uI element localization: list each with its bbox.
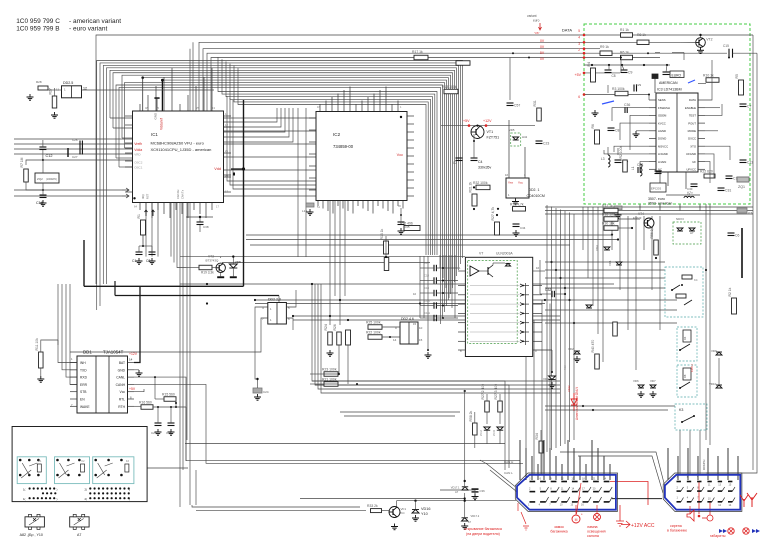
svg-text:"US": "US"	[534, 31, 540, 35]
svg-text:R1: R1	[137, 214, 141, 218]
svg-text:1C0 959 799 B: 1C0 959 799 B	[16, 25, 59, 32]
svg-text:СИГН: СИГН	[690, 364, 694, 372]
svg-text:1(: 1(	[23, 497, 26, 501]
svg-text:A7: A7	[77, 533, 81, 537]
svg-text:замок: замок	[554, 525, 564, 529]
svg-text:R8 1k: R8 1k	[637, 33, 646, 37]
svg-text:ODEM: ODEM	[658, 114, 667, 118]
svg-text:FSWASH: FSWASH	[658, 106, 670, 110]
svg-text:UF: UF	[692, 160, 696, 164]
svg-text:Vrefh: Vrefh	[134, 142, 142, 146]
svg-text:4: 4	[578, 36, 580, 40]
svg-text:R24: R24	[324, 324, 328, 330]
svg-text:L1: L1	[631, 166, 635, 170]
svg-text:VD8: VD8	[235, 260, 241, 264]
svg-text:TJA1054T: TJA1054T	[103, 350, 124, 355]
svg-text:C35: C35	[404, 225, 410, 229]
svg-text:R1 1k: R1 1k	[620, 28, 629, 32]
svg-text:RTH: RTH	[118, 405, 125, 409]
svg-text:2(: 2(	[85, 497, 88, 501]
svg-text:15: 15	[413, 322, 417, 326]
svg-text:16: 16	[505, 173, 509, 177]
svg-text:Vcc: Vcc	[397, 153, 403, 157]
svg-text:C38: C38	[203, 225, 209, 229]
svg-text:3507- euro: 3507- euro	[648, 197, 665, 201]
svg-text:LNAIN: LNAIN	[658, 160, 666, 164]
svg-text:C8: C8	[615, 129, 619, 133]
svg-text:OSC2: OSC2	[134, 160, 143, 164]
svg-text:NDX3: NDX3	[676, 217, 684, 221]
svg-text:VD1: VD1	[608, 260, 612, 266]
svg-text:- euro variant: - euro variant	[69, 25, 107, 32]
svg-text:): )	[57, 488, 58, 492]
svg-text:C12: C12	[46, 154, 53, 158]
svg-text:DD1: DD1	[83, 350, 92, 355]
svg-text:салона: салона	[587, 534, 599, 538]
svg-text:VD16: VD16	[421, 507, 431, 511]
svg-text:R4: R4	[587, 62, 591, 66]
svg-text:euro: euro	[533, 19, 540, 23]
svg-text:10: 10	[413, 292, 417, 296]
svg-text:ENABLE: ENABLE	[685, 106, 696, 110]
svg-text:R13 1k: R13 1k	[380, 228, 384, 239]
svg-text:C57: C57	[514, 104, 520, 108]
svg-text:ERR: ERR	[80, 383, 88, 387]
svg-text:VT: VT	[479, 252, 483, 256]
svg-text:GND: GND	[154, 112, 158, 120]
svg-text:MSVCC: MSVCC	[658, 144, 668, 148]
svg-text:сирена: сирена	[670, 524, 682, 528]
svg-text:C15: C15	[723, 44, 729, 48]
svg-text:Vcc: Vcc	[518, 181, 524, 185]
svg-text:AGND: AGND	[658, 129, 666, 133]
svg-text:CAN H: CAN H	[504, 460, 513, 464]
svg-text:M: M	[575, 518, 578, 522]
svg-text:POUT: POUT	[688, 121, 696, 125]
svg-text:EURO: EURO	[672, 73, 682, 77]
svg-text:0V: 0V	[540, 57, 545, 61]
svg-text:TEST: TEST	[689, 114, 696, 118]
svg-text:LNGND: LNGND	[658, 152, 668, 156]
svg-text:H42: H42	[522, 135, 528, 139]
svg-text:DD2. 1: DD2. 1	[529, 188, 540, 192]
svg-text:R14 4,7k: R14 4,7k	[510, 203, 524, 207]
svg-text:C36: C36	[624, 103, 630, 107]
svg-text:6: 6	[578, 95, 580, 99]
svg-text:габариты: габариты	[710, 534, 726, 538]
svg-text:C9: C9	[628, 71, 632, 75]
svg-text:C111: C111	[424, 311, 431, 315]
svg-text:VD4: VD4	[595, 245, 599, 251]
svg-text:SENS: SENS	[658, 98, 666, 102]
svg-text:R19 3,3k: R19 3,3k	[201, 271, 214, 275]
svg-text:Vdd: Vdd	[214, 167, 221, 171]
svg-text:R58 2k: R58 2k	[469, 410, 473, 421]
svg-text:RST: RST	[146, 193, 150, 199]
svg-text:BT3743Q: BT3743Q	[206, 259, 220, 263]
svg-text:R2 100k: R2 100k	[619, 146, 623, 159]
svg-text:10: 10	[419, 326, 423, 330]
svg-text:K3: K3	[679, 408, 683, 412]
svg-text:VD3: VD3	[543, 377, 549, 381]
svg-text:A7: A7	[455, 490, 459, 494]
svg-text:R33 2k: R33 2k	[367, 504, 378, 508]
svg-text:R6: R6	[591, 124, 595, 128]
svg-text:2(: 2(	[85, 488, 88, 492]
svg-text:Vdda: Vdda	[134, 148, 142, 152]
svg-text:RXD: RXD	[80, 376, 88, 380]
svg-text:R40 470: R40 470	[591, 340, 595, 353]
svg-text:R10 1k: R10 1k	[703, 74, 714, 78]
svg-text:R11 10k: R11 10k	[35, 338, 39, 351]
svg-text:IRQ: IRQ	[141, 194, 145, 199]
svg-text:C2: C2	[453, 161, 457, 165]
svg-text:AMERICAN: AMERICAN	[659, 81, 678, 85]
svg-text:BAT: BAT	[119, 361, 125, 365]
svg-text:16: 16	[536, 266, 540, 270]
svg-text:R32 100k: R32 100k	[473, 181, 488, 185]
svg-text:): )	[129, 488, 130, 492]
svg-text:TXD: TXD	[80, 368, 87, 372]
svg-text:C31: C31	[725, 189, 731, 193]
svg-text:R31: R31	[533, 100, 537, 106]
svg-text:VD7: VD7	[650, 379, 656, 383]
svg-text:R13 100k: R13 100k	[442, 85, 457, 89]
svg-text:Vddaref: Vddaref	[160, 118, 164, 130]
svg-text:C18: C18	[424, 274, 429, 278]
svg-text:MC68HC908AZ60 VFU - euro: MC68HC908AZ60 VFU - euro	[151, 140, 205, 145]
svg-text:C23: C23	[543, 142, 549, 146]
svg-text:R56 2,8: R56 2,8	[650, 227, 654, 239]
svg-text:освещения: освещения	[587, 530, 606, 534]
svg-text:3503- american: 3503- american	[648, 202, 672, 206]
svg-text:330x35v: 330x35v	[478, 166, 491, 170]
svg-text:+12V: +12V	[129, 352, 138, 356]
svg-text:ULN2003A: ULN2003A	[496, 252, 513, 256]
svg-text:R3 100k: R3 100k	[612, 87, 625, 91]
svg-text:D8: D8	[683, 374, 687, 378]
svg-text:KVCC: KVCC	[658, 121, 666, 125]
svg-text:R6 1k: R6 1k	[620, 51, 629, 55]
svg-text:A82 ,(Бр , Y10: A82 ,(Бр , Y10	[20, 533, 43, 537]
svg-text:C6: C6	[735, 234, 739, 238]
svg-text:C29: C29	[636, 83, 642, 87]
svg-text:ZQ2: ZQ2	[37, 177, 43, 181]
svg-text:R15 560: R15 560	[162, 393, 175, 397]
svg-text:R17 1k: R17 1k	[412, 50, 423, 54]
svg-text:1C0 959 799 C: 1C0 959 799 C	[16, 18, 60, 25]
svg-text:R25 100k: R25 100k	[366, 321, 381, 325]
svg-text:C19: C19	[424, 286, 429, 290]
svg-text:15: 15	[419, 338, 423, 342]
svg-text:K4: K4	[694, 278, 698, 282]
svg-text:C27: C27	[72, 155, 78, 159]
svg-text:VT1: VT1	[487, 130, 494, 134]
svg-text:): )	[57, 497, 58, 501]
svg-text:RTL: RTL	[119, 398, 125, 402]
svg-text:0V: 0V	[540, 45, 545, 49]
svg-text:): )	[129, 497, 130, 501]
svg-text:R7 1M: R7 1M	[20, 157, 24, 167]
svg-text:ZQ1: ZQ1	[738, 185, 745, 189]
svg-text:(на двери водителя): (на двери водителя)	[466, 532, 500, 536]
svg-text:- american variant: - american variant	[69, 18, 121, 25]
svg-text:C24: C24	[263, 390, 269, 394]
svg-text:E1023: E1023	[633, 216, 642, 220]
svg-text:R27.2 400: R27.2 400	[481, 384, 485, 400]
svg-text:+12V ACC: +12V ACC	[631, 523, 655, 529]
svg-text:VD6: VD6	[633, 379, 639, 383]
svg-text:C11: C11	[747, 161, 753, 165]
svg-text:R5: R5	[735, 74, 739, 78]
svg-text:GND: GND	[118, 368, 126, 372]
svg-text:734859-00: 734859-00	[333, 144, 354, 149]
svg-text:VD2: VD2	[568, 347, 574, 351]
svg-text:5V: 5V	[540, 51, 545, 55]
svg-text:IC6: IC6	[748, 211, 753, 215]
svg-text:лампа: лампа	[587, 525, 598, 529]
svg-text:L3: L3	[601, 157, 605, 161]
svg-text:14: 14	[129, 358, 133, 362]
svg-text:C32: C32	[545, 288, 551, 292]
svg-text:EN: EN	[80, 398, 85, 402]
svg-text:ОСИГН: ОСИГН	[702, 460, 706, 470]
svg-text:C8: C8	[612, 74, 616, 78]
svg-text:R26: R26	[333, 324, 337, 330]
svg-text:WAKE: WAKE	[80, 405, 90, 409]
svg-text:R16 560: R16 560	[139, 401, 152, 405]
svg-text:OSC1: OSC1	[134, 165, 143, 169]
svg-text:14: 14	[393, 338, 397, 342]
svg-text:R34: R34	[535, 433, 539, 439]
svg-text:VD10: VD10	[709, 382, 717, 386]
svg-text:5: 5	[578, 29, 580, 33]
svg-text:в багажнике: в багажнике	[667, 529, 687, 533]
svg-text:+5V: +5V	[129, 387, 136, 391]
svg-text:VD15: VD15	[493, 429, 496, 436]
svg-text:3: 3	[578, 42, 580, 46]
svg-text:R9 1k: R9 1k	[600, 45, 609, 49]
svg-text:CAN Rx: CAN Rx	[176, 189, 180, 199]
svg-text:R23 100k: R23 100k	[322, 368, 337, 372]
svg-text:+5V: +5V	[575, 73, 582, 77]
svg-text:DGND: DGND	[658, 137, 666, 141]
svg-text:4,7u: 4,7u	[687, 191, 693, 195]
svg-text:CANL: CANL	[116, 376, 125, 380]
svg-text:VD5: VD5	[509, 128, 515, 132]
svg-text:C34: C34	[520, 226, 526, 230]
svg-text:2: 2	[578, 48, 580, 52]
svg-text:R62: R62	[563, 365, 567, 370]
svg-text:R27: R27	[49, 88, 53, 94]
svg-text:CD4010CM: CD4010CM	[527, 194, 545, 198]
svg-text:DD2 4,6: DD2 4,6	[401, 317, 414, 321]
svg-text:IC2: IC2	[333, 132, 341, 137]
svg-text:Y10: Y10	[421, 512, 428, 516]
svg-text:Vss: Vss	[508, 181, 514, 185]
svg-text:R30 10k: R30 10k	[602, 222, 615, 226]
svg-text:CANH: CANH	[116, 383, 126, 387]
svg-text:CAN Tx: CAN Tx	[181, 189, 185, 199]
svg-text:открывание багажника: открывание багажника	[464, 527, 502, 531]
svg-text:+5V: +5V	[463, 119, 470, 123]
svg-text:MODE: MODE	[688, 129, 697, 133]
svg-text:EPCOS: EPCOS	[651, 187, 661, 191]
svg-text:VD14: VD14	[480, 429, 483, 436]
svg-text:R12 1k: R12 1k	[602, 204, 613, 208]
svg-text:XC911041CPU_1J35D - american: XC911041CPU_1J35D - american	[151, 147, 212, 152]
svg-text:UFVCC: UFVCC	[686, 168, 696, 172]
svg-text:DATA: DATA	[689, 98, 696, 102]
svg-text:VT2: VT2	[706, 38, 712, 42]
svg-text:VD12: VD12	[567, 385, 571, 392]
svg-text:11: 11	[56, 88, 59, 92]
svg-text:C26: C26	[72, 138, 78, 142]
svg-text:American variant ONLY: American variant ONLY	[575, 386, 579, 420]
svg-text:VD17.2: VD17.2	[471, 514, 480, 518]
svg-text:CAN L: CAN L	[504, 471, 513, 475]
svg-text:1(: 1(	[23, 488, 26, 492]
svg-text:DD2 2,3: DD2 2,3	[268, 298, 281, 302]
svg-text:R21 100k: R21 100k	[322, 378, 337, 382]
svg-text:VRD: VRD	[134, 152, 141, 156]
svg-text:XTO: XTO	[690, 144, 697, 148]
svg-text:R22 620: R22 620	[700, 170, 713, 174]
svg-text:DD2.5: DD2.5	[63, 81, 73, 85]
svg-text:R28: R28	[36, 80, 42, 84]
svg-text:R27 4,7k: R27 4,7k	[491, 207, 495, 221]
svg-text:DXCC: DXCC	[688, 137, 696, 141]
svg-text:C17: C17	[424, 261, 429, 265]
svg-text:FZT751: FZT751	[487, 136, 500, 140]
svg-text:багажника: багажника	[550, 530, 567, 534]
svg-text:IC3 LD7413BM: IC3 LD7413BM	[657, 88, 682, 92]
svg-text:R18 100: R18 100	[602, 213, 615, 217]
svg-text:Vcc: Vcc	[120, 390, 126, 394]
svg-text:STB: STB	[80, 390, 87, 394]
svg-text:C110: C110	[424, 299, 431, 303]
svg-text:C4: C4	[478, 160, 483, 164]
svg-text:(1000kHz): (1000kHz)	[46, 178, 57, 181]
svg-text:R27.3 400: R27.3 400	[494, 384, 498, 400]
svg-text:variant: variant	[527, 14, 537, 18]
svg-text:UFGND: UFGND	[686, 152, 696, 156]
svg-text:VD17.1: VD17.1	[451, 486, 460, 490]
svg-text:R2 1k: R2 1k	[728, 287, 732, 296]
svg-text:+12V: +12V	[483, 119, 492, 123]
svg-text:C7: C7	[747, 105, 751, 109]
svg-text:VD9: VD9	[711, 349, 717, 353]
svg-text:DATA: DATA	[562, 28, 572, 33]
svg-text:C36: C36	[480, 489, 486, 493]
svg-text:A7: A7	[690, 231, 694, 235]
svg-text:0V: 0V	[540, 39, 545, 43]
svg-text:INH: INH	[80, 361, 86, 365]
svg-text:IC1: IC1	[151, 132, 158, 137]
svg-text:R21 2k: R21 2k	[469, 181, 473, 192]
svg-text:D4: D4	[683, 336, 687, 340]
svg-text:R22 100k: R22 100k	[366, 331, 381, 335]
